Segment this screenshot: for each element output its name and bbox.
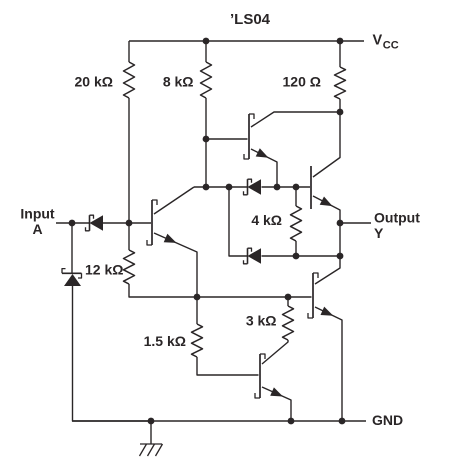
node input-20k junction: [126, 220, 133, 227]
transistor Q1 emitter wire: [154, 233, 197, 297]
node 8k-Q2 base junction: [203, 136, 210, 143]
resistor 120 Ohm: [283, 41, 346, 99]
wire 20k to input node: [128, 98, 130, 223]
transistor Q4 emitter wire: [262, 387, 291, 421]
svg-text:V: V: [373, 33, 383, 49]
wire mid row right: [262, 186, 311, 188]
wire Q2 base: [206, 138, 248, 140]
node 4k bottom junction: [293, 253, 300, 260]
node Vcc-120 junction: [337, 38, 344, 45]
node output Y: [337, 220, 344, 227]
transistor Q1 collector wire: [154, 187, 194, 214]
svg-text:1.5 kΩ: 1.5 kΩ: [144, 333, 186, 349]
node 3k top junction: [285, 294, 292, 301]
transistor Q1 base bar: [147, 200, 157, 245]
svg-text:GND: GND: [372, 412, 403, 428]
resistor 8 kOhm: [163, 41, 212, 98]
wire 8k column: [205, 98, 207, 187]
svg-text:3 kΩ: 3 kΩ: [246, 313, 277, 329]
wire GND rail: [72, 420, 366, 422]
resistor 12 kOhm: [85, 223, 135, 284]
node 8k bottom junction: [203, 184, 210, 191]
schottky clamp diode D4: [62, 269, 82, 286]
transistor Q2 collector wire: [251, 112, 340, 127]
wire 12k to splitter row: [129, 284, 197, 297]
wire Q1 collector row: [194, 186, 248, 188]
node 120-collector junction: [337, 109, 344, 116]
node Q1 emitter junction: [194, 294, 201, 301]
transistor Q2 emitter wire: [251, 148, 277, 187]
Vcc rail wire: [129, 40, 364, 42]
svg-text:A: A: [32, 221, 42, 237]
svg-text:12 kΩ: 12 kΩ: [85, 262, 123, 278]
label GND: [372, 412, 403, 428]
ground symbol: [140, 421, 163, 456]
label Output Y: [374, 210, 420, 242]
transistor Q3 emitter wire: [313, 196, 340, 223]
node Q4 emitter junction: [288, 418, 295, 425]
wire diode branch vertical: [229, 187, 248, 256]
node Vcc-8k junction: [203, 38, 210, 45]
transistor Q2 base bar: [244, 114, 254, 159]
wire output lead: [340, 222, 371, 224]
wire 1.5k to Q4 base: [197, 357, 259, 375]
svg-text:’LS04: ’LS04: [230, 11, 271, 28]
node output column junction: [337, 253, 344, 260]
schottky diode D1 input: [86, 215, 104, 231]
svg-text:CC: CC: [383, 40, 399, 52]
schottky diode D2: [244, 179, 262, 195]
resistor 4 kOhm: [251, 187, 301, 241]
node input A: [69, 220, 76, 227]
resistor 20 kOhm: [75, 41, 135, 98]
node Q2 emitter junction: [274, 184, 281, 191]
svg-text:Input: Input: [20, 206, 55, 222]
wire splitter row: [197, 296, 312, 298]
Vcc label: [373, 33, 399, 52]
resistor 1.5 kOhm: [144, 297, 203, 357]
title label 'LS04: [230, 11, 271, 28]
transistor Q5 emitter wire: [315, 307, 342, 421]
transistor Q3 collector wire: [313, 112, 340, 177]
svg-text:4 kΩ: 4 kΩ: [251, 212, 282, 228]
node 4k top junction: [293, 184, 300, 191]
transistor Q5 collector wire: [315, 256, 340, 284]
transistor Q4 collector wire: [262, 340, 288, 364]
node ground symbol junction: [148, 418, 155, 425]
svg-text:8 kΩ: 8 kΩ: [163, 74, 194, 90]
schottky diode D3: [244, 248, 262, 264]
svg-text:Output: Output: [374, 210, 420, 226]
wire input column upper: [71, 223, 73, 273]
wire 4k bottom lead: [295, 241, 297, 256]
node Q5 emitter junction: [339, 418, 346, 425]
svg-text:120 Ω: 120 Ω: [283, 74, 321, 90]
wire 120 to node: [339, 99, 341, 112]
node diode branch junction: [226, 184, 233, 191]
wire diode to base column: [102, 222, 151, 224]
transistor Q3 base bar: [310, 166, 312, 209]
resistor 3 kOhm: [246, 297, 294, 340]
wire lower diode row: [262, 255, 341, 257]
label Input A: [20, 206, 55, 238]
wire input column to ground rail: [73, 286, 152, 421]
transistor Q4 base bar: [255, 354, 265, 398]
wire output column: [339, 223, 341, 256]
transistor Q5 base bar: [308, 273, 318, 318]
wire input lead: [56, 222, 89, 224]
svg-text:20 kΩ: 20 kΩ: [75, 74, 113, 90]
svg-text:Y: Y: [374, 225, 384, 241]
